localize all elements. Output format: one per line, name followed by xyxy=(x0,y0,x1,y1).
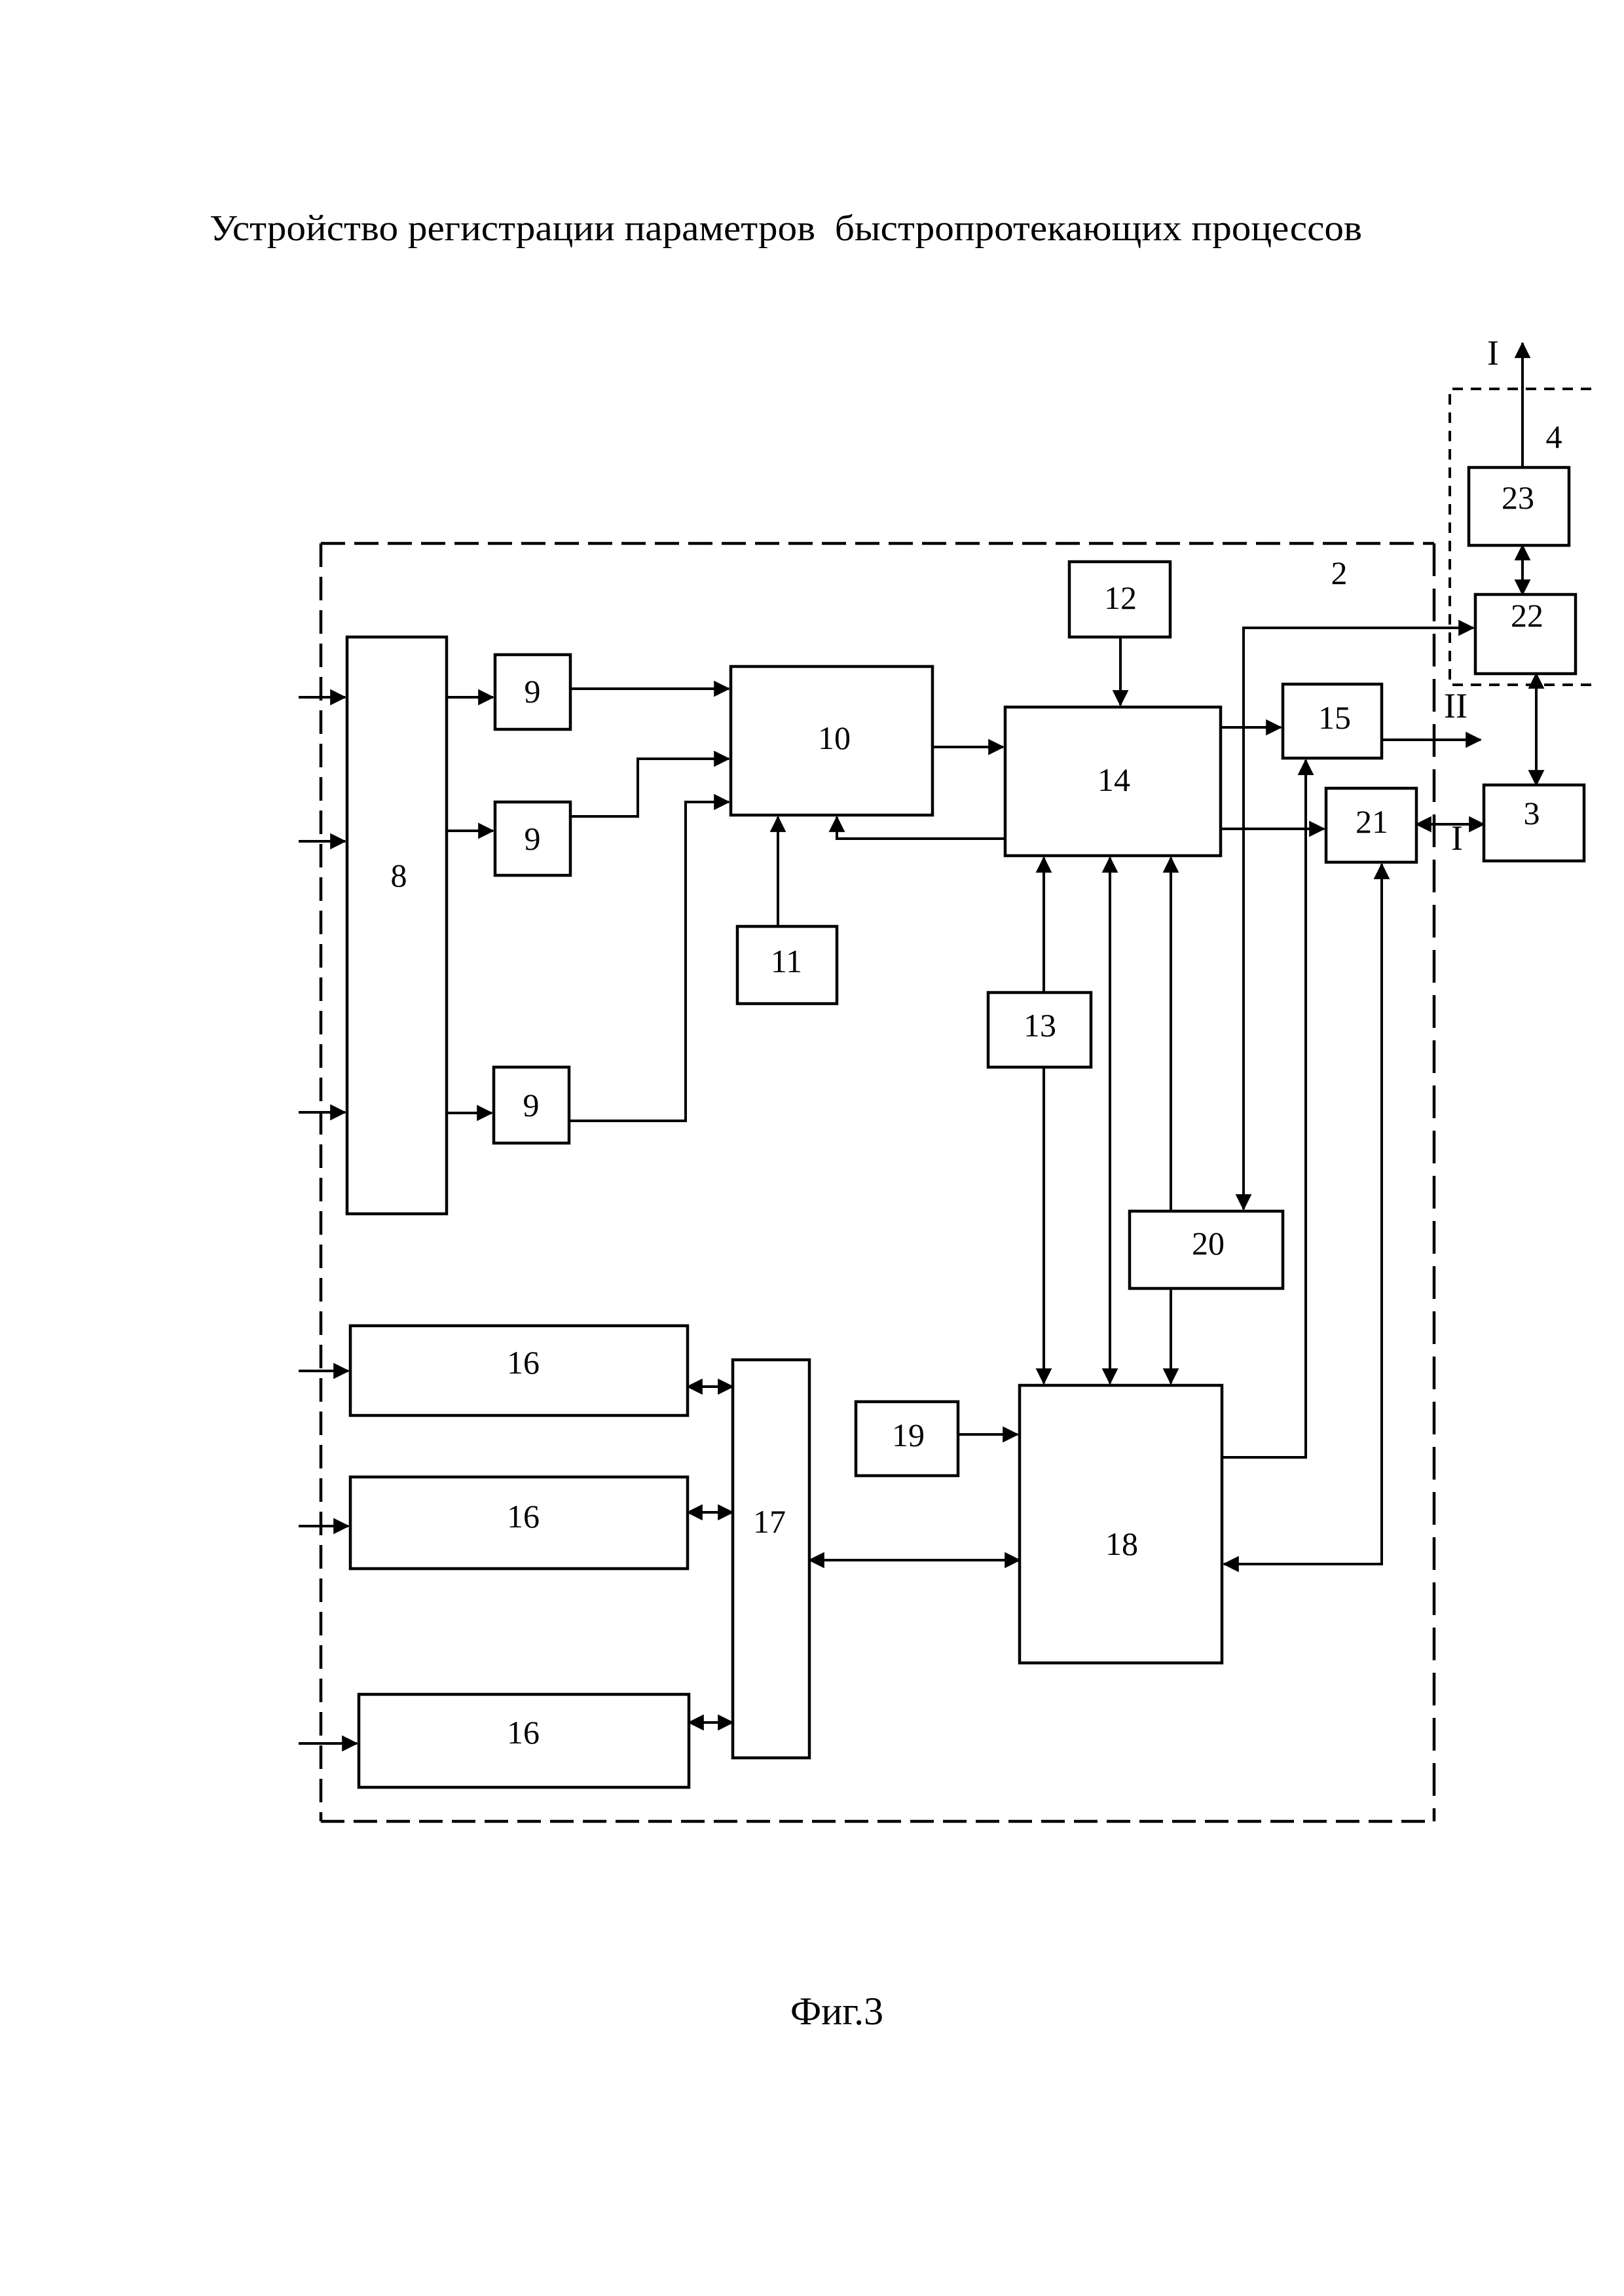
svg-text:I: I xyxy=(1451,818,1463,858)
dashed box 4 xyxy=(1450,389,1591,685)
block 9c xyxy=(494,1067,569,1143)
svg-text:13: 13 xyxy=(1024,1007,1056,1044)
svg-text:19: 19 xyxy=(892,1417,925,1453)
wire 8 to 9b xyxy=(447,829,493,832)
wire 20 to 14 xyxy=(1170,858,1172,1211)
svg-text:16: 16 xyxy=(507,1498,540,1535)
wire input 3 to 8 xyxy=(299,1111,345,1114)
wire 22 to 3 bidirectional xyxy=(1535,674,1538,785)
svg-text:9: 9 xyxy=(525,820,541,857)
block 8 xyxy=(347,637,447,1214)
svg-text:9: 9 xyxy=(523,1087,540,1123)
svg-text:11: 11 xyxy=(771,943,802,979)
wire 9b to 10 xyxy=(570,759,729,816)
dashed box 2 right edge xyxy=(1433,543,1436,1821)
wire 14 to 18 bidirectional xyxy=(1109,858,1111,1383)
wire 8 to 9a xyxy=(447,696,493,699)
wire 11 to 10 xyxy=(777,817,779,926)
svg-text:Устройство регистрации парамет: Устройство регистрации параметров быстро… xyxy=(210,208,1362,249)
svg-text:II: II xyxy=(1444,686,1467,725)
svg-text:16: 16 xyxy=(507,1344,540,1381)
svg-text:17: 17 xyxy=(753,1503,786,1540)
block 16b xyxy=(350,1477,688,1569)
wire input to 16b xyxy=(299,1525,348,1527)
block 10 xyxy=(731,666,932,815)
svg-text:Фиг.3: Фиг.3 xyxy=(790,1990,883,2033)
svg-text:12: 12 xyxy=(1104,579,1137,616)
wire input to 16c xyxy=(299,1742,357,1745)
dashed box 2 top edge xyxy=(321,542,1434,545)
svg-text:4: 4 xyxy=(1546,418,1562,455)
wire 12 to 14 xyxy=(1119,637,1122,705)
svg-text:20: 20 xyxy=(1192,1225,1225,1262)
wire 18 to 15 xyxy=(1222,760,1306,1457)
block 19 xyxy=(856,1402,958,1476)
block 14 xyxy=(1005,707,1221,856)
block 3 xyxy=(1484,785,1584,861)
wire 17 to 18 bidirectional xyxy=(809,1559,1020,1561)
dashed box 2 left edge xyxy=(320,543,323,1821)
wire 23 to 22 bidirectional xyxy=(1521,545,1524,594)
block 21 xyxy=(1326,788,1416,862)
wire 14 to 21 xyxy=(1221,828,1324,830)
wire 13 to 14 xyxy=(1043,858,1045,993)
wire 14 feedback to 10 xyxy=(837,817,1005,839)
svg-text:22: 22 xyxy=(1511,597,1543,634)
svg-text:16: 16 xyxy=(507,1714,540,1751)
wire 13 to 18 xyxy=(1043,1067,1045,1383)
svg-text:15: 15 xyxy=(1318,699,1351,736)
block 16a xyxy=(350,1326,688,1415)
wire 21 to 3 bidirectional xyxy=(1416,823,1484,826)
svg-text:18: 18 xyxy=(1105,1525,1138,1562)
block 12 xyxy=(1069,562,1170,637)
wire riser to 22 and 20 xyxy=(1244,628,1473,1209)
block 16c xyxy=(359,1694,689,1787)
wire input 2 to 8 xyxy=(299,840,345,843)
block 15 xyxy=(1283,684,1382,758)
block 20 xyxy=(1130,1211,1283,1288)
wire 23 to output I xyxy=(1521,343,1524,467)
block 18 xyxy=(1020,1385,1222,1663)
wire 15 to output II xyxy=(1382,738,1481,741)
wire 16c to 17 bidirectional xyxy=(689,1721,733,1724)
block 11 xyxy=(737,926,837,1004)
block 13 xyxy=(988,993,1091,1067)
svg-text:2: 2 xyxy=(1331,555,1348,591)
wire input 1 to 8 xyxy=(299,696,345,699)
wire 16a to 17 bidirectional xyxy=(688,1385,733,1388)
wire input to 16a xyxy=(299,1370,348,1372)
svg-text:3: 3 xyxy=(1524,795,1540,831)
wire 10 to 14 xyxy=(932,746,1003,748)
wire 9a to 10 xyxy=(570,687,729,690)
svg-text:21: 21 xyxy=(1356,803,1388,840)
wire 14 to 15 xyxy=(1221,726,1281,729)
block 22 xyxy=(1475,594,1576,674)
block 23 xyxy=(1469,467,1569,545)
svg-text:14: 14 xyxy=(1098,761,1130,798)
wire 20 to 18 xyxy=(1170,1288,1172,1383)
svg-text:9: 9 xyxy=(525,673,541,710)
svg-text:10: 10 xyxy=(818,720,851,756)
svg-text:I: I xyxy=(1487,333,1499,373)
wire 19 to 18 xyxy=(958,1433,1018,1436)
svg-text:8: 8 xyxy=(391,857,407,894)
wire 16b to 17 bidirectional xyxy=(688,1511,733,1514)
wire 21 to 18 bidirectional xyxy=(1224,864,1382,1564)
block 17 xyxy=(733,1360,809,1758)
block 9a xyxy=(495,655,570,729)
wire 9c to 10 xyxy=(569,802,729,1121)
dashed box 2 bottom edge xyxy=(321,1820,1434,1823)
wire 8 to 9c xyxy=(447,1112,492,1114)
block 9b xyxy=(495,802,570,875)
svg-text:23: 23 xyxy=(1502,479,1534,516)
